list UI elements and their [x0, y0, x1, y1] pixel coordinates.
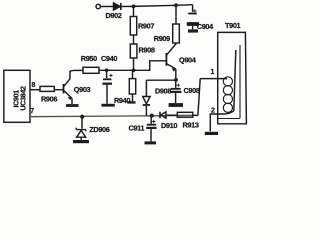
svg-text:2: 2 [211, 107, 215, 114]
svg-text:R907: R907 [138, 22, 154, 31]
svg-text:C911: C911 [129, 124, 145, 133]
svg-text:C904: C904 [197, 22, 214, 31]
svg-text:C940: C940 [101, 54, 117, 63]
svg-text:C908: C908 [184, 86, 200, 95]
svg-text:R906: R906 [41, 94, 57, 103]
svg-text:Q903: Q903 [74, 85, 91, 94]
svg-text:R950: R950 [81, 54, 97, 63]
svg-text:T901: T901 [225, 21, 241, 30]
svg-text:D910: D910 [161, 121, 177, 130]
svg-text:R908: R908 [139, 46, 155, 55]
svg-text:R909: R909 [154, 34, 170, 43]
svg-text:D908: D908 [155, 87, 171, 96]
svg-text:8: 8 [32, 82, 36, 89]
svg-text:R940: R940 [114, 96, 130, 105]
svg-text:1: 1 [211, 69, 215, 76]
svg-text:UC3842: UC3842 [20, 86, 27, 111]
svg-text:Q904: Q904 [179, 56, 197, 65]
svg-text:ZD906: ZD906 [89, 125, 109, 134]
svg-text:D902: D902 [106, 11, 122, 20]
svg-text:R913: R913 [183, 120, 199, 129]
svg-text:7: 7 [30, 108, 34, 115]
